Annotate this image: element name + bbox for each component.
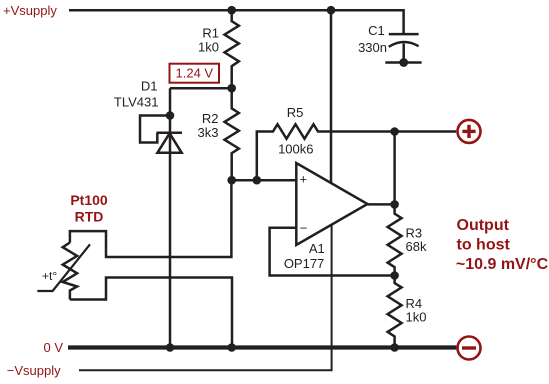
svg-text:1k0: 1k0 [406, 310, 427, 325]
terminal - output [458, 337, 481, 360]
wire 1.24V node horizontal [170, 87, 232, 90]
node R3 R4 [390, 271, 399, 280]
node top rail R1 [227, 6, 236, 15]
wire + input row [232, 179, 297, 182]
svg-text:+Vsupply: +Vsupply [3, 3, 57, 18]
svg-text:R5: R5 [287, 105, 304, 120]
RTD arrow [37, 244, 90, 291]
terminal + output [458, 120, 481, 143]
node 0V D1 [166, 343, 175, 352]
wire RTD top to + input [70, 180, 232, 257]
svg-text:Output: Output [457, 217, 510, 234]
svg-text:+: + [300, 172, 308, 187]
diode D1 triangle [157, 133, 181, 153]
resistor R5 [257, 124, 456, 180]
wire V- from op-amp bottom edge down and left to -Vsupply [79, 225, 332, 371]
svg-text:TLV431: TLV431 [114, 94, 159, 109]
svg-text:−: − [300, 220, 308, 235]
svg-text:A1: A1 [309, 241, 325, 256]
node +in R5 [252, 176, 261, 185]
svg-text:R3: R3 [406, 225, 423, 240]
node top rail V+ [327, 6, 336, 15]
svg-text:RTD: RTD [75, 209, 104, 225]
svg-text:C1: C1 [368, 23, 385, 38]
TLV431 ref loop [140, 116, 170, 143]
svg-text:100k6: 100k6 [278, 142, 313, 157]
resistor R1 [225, 10, 239, 88]
svg-text:~10.9 mV/°C: ~10.9 mV/°C [456, 256, 549, 273]
svg-text:R2: R2 [202, 111, 219, 126]
wire D1 column vertical to 0V [169, 88, 172, 347]
svg-text:0 V: 0 V [44, 340, 64, 355]
resistor Pt100 RTD zigzag [63, 243, 77, 300]
wire C1 bottom lead [402, 44, 405, 63]
wire C1 bottom terminal [385, 61, 421, 64]
node 0V R4 [390, 343, 399, 352]
svg-text:330n: 330n [358, 40, 387, 55]
wire V+ supply to op-amp top edge [330, 10, 333, 183]
resistor R4 [388, 276, 402, 348]
svg-text:1.24 V: 1.24 V [176, 66, 214, 81]
resistor R3 [388, 204, 402, 275]
svg-text:+t°: +t° [42, 269, 57, 283]
node 0V RTD [227, 343, 236, 352]
op-amp A1 triangle [296, 163, 367, 245]
node output apex [390, 200, 399, 209]
svg-text:Pt100: Pt100 [70, 192, 108, 208]
node C1 bottom [399, 58, 408, 67]
wire output node vertical [393, 132, 396, 205]
svg-text:68k: 68k [406, 239, 427, 254]
node D1 ref [166, 111, 175, 120]
wire 0V rail [68, 345, 456, 349]
svg-text:1k0: 1k0 [198, 40, 219, 55]
wire op-amp output [368, 203, 395, 206]
wire +Vsupply rail top, bends down to C1 [69, 10, 404, 34]
node 1.24V [227, 84, 236, 93]
svg-text:−Vsupply: −Vsupply [7, 363, 61, 378]
svg-text:to host: to host [457, 237, 511, 254]
capacitor C1 curved plate [389, 42, 419, 47]
wire - input loop to feedback node [270, 228, 395, 276]
resistor R2 [225, 88, 239, 180]
node +in R2 [227, 176, 236, 185]
node output R5 [390, 127, 399, 136]
wire RTD bottom to 0V [70, 278, 232, 348]
svg-text:D1: D1 [141, 79, 158, 94]
svg-text:3k3: 3k3 [198, 125, 219, 140]
svg-text:OP177: OP177 [284, 256, 324, 271]
voltage box 1.24 V [170, 64, 220, 83]
svg-text:R1: R1 [202, 25, 219, 40]
capacitor C1 top plate [389, 33, 419, 36]
diode D1 cathode bar [157, 132, 183, 135]
